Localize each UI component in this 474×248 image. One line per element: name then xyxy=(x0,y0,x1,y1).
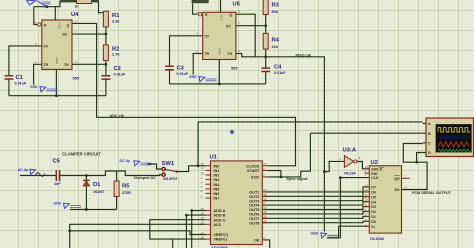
svg-text:TR: TR xyxy=(205,52,210,56)
wire data bus OUT4-D4 xyxy=(262,202,369,205)
svg-text:VCC: VCC xyxy=(220,15,224,22)
svg-text:10: 10 xyxy=(365,198,369,202)
svg-text:OUT1: OUT1 xyxy=(249,191,259,195)
wire data bus OUT7-D1 xyxy=(262,216,369,218)
svg-text:OUT8: OUT8 xyxy=(249,221,259,225)
svg-text:74LS04: 74LS04 xyxy=(344,171,356,175)
svg-text:OUT6: OUT6 xyxy=(249,213,259,217)
svg-text:C4: C4 xyxy=(274,65,282,71)
svg-text:15: 15 xyxy=(365,165,369,169)
wire U5 DC to R3R4 junction xyxy=(236,15,266,34)
terminal AC i/p xyxy=(18,168,46,176)
svg-text:80k: 80k xyxy=(272,9,279,14)
svg-text:D: D xyxy=(428,151,431,155)
wire data bus OUT6-D2 xyxy=(262,212,369,214)
resistor R4 xyxy=(263,33,279,49)
svg-text:Clamped AC: Clamped AC xyxy=(134,176,157,180)
svg-text:R4: R4 xyxy=(272,38,280,44)
terminal DC i/p xyxy=(120,159,152,166)
diode D1 xyxy=(83,180,104,194)
wire U1 EOC sync signal to scope B xyxy=(267,133,423,177)
wire U4 CV to C1 xyxy=(9,46,42,76)
svg-text:ALE: ALE xyxy=(213,223,221,227)
svg-text:TR: TR xyxy=(44,63,49,67)
svg-text:D3: D3 xyxy=(371,205,376,209)
wire C5 to D1 to switch (clamped AC) xyxy=(60,171,162,176)
svg-text:VREF(+): VREF(+) xyxy=(213,233,229,237)
junction U4 GND rail xyxy=(55,94,58,97)
svg-text:C3: C3 xyxy=(177,66,185,72)
svg-text:0.01uF: 0.01uF xyxy=(114,72,126,76)
svg-text:555: 555 xyxy=(73,76,80,81)
svg-text:B: B xyxy=(428,132,431,136)
svg-text:27: 27 xyxy=(201,167,205,171)
wire U1 START to EOC xyxy=(267,171,281,177)
svg-text:IN3: IN3 xyxy=(213,178,219,182)
svg-text:C2: C2 xyxy=(114,66,121,72)
thick rail segment left of 1k xyxy=(60,0,99,2)
wire U1 OE down xyxy=(262,240,269,248)
svg-text:C1: C1 xyxy=(16,75,24,81)
svg-text:R3: R3 xyxy=(272,3,280,9)
svg-text:SO: SO xyxy=(394,188,399,192)
wire switch pole to U1 IN0 xyxy=(177,166,206,172)
svg-text:U5: U5 xyxy=(233,2,241,8)
svg-text:GND: GND xyxy=(218,48,222,56)
wire ground to U2 SI xyxy=(327,226,369,238)
svg-text:22: 22 xyxy=(201,221,205,225)
pin ADD C xyxy=(206,219,211,221)
wire C3 bottom / gnd rail U5 xyxy=(170,70,266,84)
scope trace B (blue) xyxy=(438,136,470,139)
wire U5 VCC stub xyxy=(220,0,222,12)
wire U2 INH to ground xyxy=(340,178,369,238)
pin VREF(-) xyxy=(206,238,211,240)
pin U2 CLK xyxy=(364,177,369,179)
svg-text:14: 14 xyxy=(365,183,369,187)
svg-text:D5: D5 xyxy=(371,195,376,199)
svg-text:20: 20 xyxy=(263,215,267,219)
wire DC input to switch xyxy=(148,164,162,169)
pin OUT3 xyxy=(262,200,267,202)
svg-text:OE: OE xyxy=(254,239,260,243)
svg-text:0.01uF: 0.01uF xyxy=(274,71,286,75)
junction scope D tap xyxy=(415,161,418,164)
resistor R3 xyxy=(263,0,279,15)
wire U4 Q to ADC clk run xyxy=(72,23,296,165)
oscilloscope xyxy=(426,118,474,157)
pin U2 QH xyxy=(402,177,410,179)
svg-text:DC i/p: DC i/p xyxy=(120,159,131,163)
wire U1 VREF- left xyxy=(173,239,206,248)
wire U4 VCC stub xyxy=(54,7,56,20)
svg-text:SI: SI xyxy=(371,225,374,229)
svg-text:12: 12 xyxy=(365,188,369,192)
junction R4-C4 / PISO clk node xyxy=(264,55,267,58)
svg-text:18: 18 xyxy=(263,206,267,210)
wire data bus OUT3-D5 xyxy=(262,197,369,201)
svg-text:D1: D1 xyxy=(93,182,101,188)
svg-text:QH: QH xyxy=(394,177,400,181)
wire IN0 node to scope A xyxy=(198,122,423,166)
wire VCC rail U5 / reset riser xyxy=(193,3,198,14)
pin IN7 xyxy=(206,197,211,199)
wire branch to scope D xyxy=(417,153,423,163)
svg-text:22k: 22k xyxy=(272,44,279,49)
svg-text:D1: D1 xyxy=(371,215,376,219)
inverter U3:A 74LS04 xyxy=(340,148,361,176)
svg-text:23: 23 xyxy=(201,216,205,220)
wire U2 SO to scope C xyxy=(402,144,428,190)
ground terminal (clamper) xyxy=(54,202,82,209)
svg-text:IN6: IN6 xyxy=(213,192,219,196)
svg-text:IN4: IN4 xyxy=(213,183,220,187)
svg-text:17: 17 xyxy=(263,188,267,192)
svg-text:IN5: IN5 xyxy=(213,187,219,191)
pin START xyxy=(262,170,267,172)
pin EOC xyxy=(262,176,267,178)
pin CLOCK xyxy=(262,165,267,167)
svg-text:CV: CV xyxy=(205,34,210,38)
scope trace A (yellow) xyxy=(438,128,470,132)
svg-text:11: 11 xyxy=(365,193,368,197)
svg-text:ADD A: ADD A xyxy=(213,209,225,213)
wire data bus OUT5-D3 xyxy=(262,207,369,210)
svg-text:28: 28 xyxy=(201,171,205,175)
svg-text:U2: U2 xyxy=(371,160,378,166)
pin IN3 xyxy=(206,179,211,181)
svg-text:EOC: EOC xyxy=(251,176,259,180)
pin OUT5 xyxy=(262,209,267,211)
svg-text:OUT3: OUT3 xyxy=(249,199,259,203)
svg-text:GND: GND xyxy=(55,58,59,66)
svg-text:R5: R5 xyxy=(122,184,130,190)
pin U2 SI xyxy=(364,225,369,227)
wire clamper ground rail xyxy=(70,197,117,210)
wire U1 ADD A down xyxy=(192,211,206,248)
wire U4 reset pin riser xyxy=(34,7,38,25)
wire U1 VREF+ left xyxy=(70,231,206,235)
svg-text:14: 14 xyxy=(263,193,267,197)
scope trace D (green) xyxy=(438,149,470,151)
svg-text:SW1: SW1 xyxy=(162,161,175,167)
ground terminal (U4 trigger net) xyxy=(30,85,58,92)
wire U4 TH to R2 bottom / C2 xyxy=(72,61,106,76)
svg-text:26: 26 xyxy=(201,162,205,166)
junction R3-R4 / U5 DC xyxy=(264,24,267,27)
resistor (1k) top rail xyxy=(75,0,92,9)
resistor R2 xyxy=(103,45,120,61)
svg-text:OUT4: OUT4 xyxy=(249,204,260,208)
wire U5 TH to R4 bottom xyxy=(236,49,266,57)
shift register U2 74LS166 body xyxy=(364,160,410,241)
svg-text:C: C xyxy=(428,142,431,146)
wire U4 DC to R1R2 junction xyxy=(72,27,106,44)
wire U1 ADD C down xyxy=(150,220,206,239)
svg-text:12: 12 xyxy=(201,231,205,235)
pin OUT2 xyxy=(262,195,267,197)
svg-text:CLAMPER CIRCUIT: CLAMPER CIRCUIT xyxy=(62,152,101,157)
pin IN1 xyxy=(206,169,211,171)
pin U2 D5 xyxy=(364,196,369,198)
junction U2 CLK corner xyxy=(339,176,342,179)
wire scope pin stubs xyxy=(423,124,426,153)
pin ALE xyxy=(206,223,211,225)
pin U2 D2 xyxy=(364,211,369,213)
pin OUT6 xyxy=(262,213,267,215)
svg-text:Q: Q xyxy=(67,23,70,27)
pin OUT8 xyxy=(262,222,267,224)
ground terminal (U2 SI / INH net) xyxy=(311,231,339,238)
svg-text:IN1: IN1 xyxy=(213,169,219,173)
svg-text:IN0: IN0 xyxy=(213,164,219,168)
wire C4 column xyxy=(265,57,267,84)
pin IN5 xyxy=(206,188,211,190)
capacitor C3 xyxy=(165,66,189,76)
wire U5 TR to ground terminal xyxy=(193,53,203,74)
svg-text:CLOCK: CLOCK xyxy=(246,164,260,168)
wire U3A output to SH/LD xyxy=(357,162,369,169)
svg-text:ADD B: ADD B xyxy=(213,214,225,218)
junction R1-R2 / U4 DC xyxy=(105,33,108,36)
svg-text:24: 24 xyxy=(201,211,205,215)
pin IN0 xyxy=(206,165,211,167)
pin U2 D0 xyxy=(364,220,369,222)
wire U5 GND pin xyxy=(218,60,220,84)
pin U2 INH xyxy=(364,172,369,174)
thick rail segment U5 top xyxy=(192,0,209,3)
timer U4 555 body xyxy=(35,12,80,81)
svg-text:74LS166: 74LS166 xyxy=(370,237,385,241)
pin U2 D7 xyxy=(364,186,369,188)
ADC U1 ADC0808 body xyxy=(201,155,267,248)
svg-text:555: 555 xyxy=(231,66,238,71)
svg-text:1nF: 1nF xyxy=(54,182,61,186)
svg-text:GND: GND xyxy=(30,85,38,89)
pin ADD A xyxy=(206,210,211,212)
wire U4 TR to ground terminal xyxy=(34,64,42,85)
svg-text:470R: 470R xyxy=(122,191,131,195)
svg-text:GND: GND xyxy=(54,202,62,206)
junction D1 ground rail xyxy=(85,208,88,211)
ground terminal (U5 trigger net) xyxy=(189,75,217,82)
svg-text:SW-SPDT: SW-SPDT xyxy=(163,177,178,181)
junction IN0 / scope A tap xyxy=(197,164,200,167)
capacitor C5 xyxy=(53,159,62,187)
svg-text:OUT2: OUT2 xyxy=(249,195,259,199)
pin U2 D3 xyxy=(364,206,369,208)
svg-text:D2: D2 xyxy=(371,210,376,214)
svg-text:CLK: CLK xyxy=(371,176,379,180)
svg-text:DC: DC xyxy=(63,33,68,37)
svg-text:Sync signal: Sync signal xyxy=(287,177,308,181)
svg-text:OUT5: OUT5 xyxy=(249,208,259,212)
svg-text:ADD C: ADD C xyxy=(213,218,225,222)
scope trace C (red) xyxy=(438,142,469,147)
svg-text:U4: U4 xyxy=(71,12,79,18)
junction ALE-VREF rail xyxy=(68,229,71,232)
svg-text:CV: CV xyxy=(44,45,49,49)
pin IN2 xyxy=(206,174,211,176)
svg-text:1N4007: 1N4007 xyxy=(93,190,104,194)
svg-text:D6: D6 xyxy=(371,191,376,195)
svg-text:PISO clk: PISO clk xyxy=(296,54,312,58)
switch SW1 xyxy=(162,161,179,181)
capacitor C4 xyxy=(261,65,286,75)
svg-text:D0: D0 xyxy=(371,220,376,224)
wire PISO clk vertical run xyxy=(266,57,325,232)
pin U2 D4 xyxy=(364,201,369,203)
pin U2 D1 xyxy=(364,215,369,217)
svg-text:15: 15 xyxy=(263,197,267,201)
wire data bus OUT8-D0 xyxy=(262,221,369,222)
svg-text:TH: TH xyxy=(228,52,233,56)
wire U5 CV to C3 xyxy=(170,36,203,66)
resistor R5 xyxy=(114,181,131,197)
svg-text:AC i/p: AC i/p xyxy=(18,168,29,172)
junction START-EOC xyxy=(280,176,283,179)
pin U2 D6 xyxy=(364,191,369,193)
svg-text:D4: D4 xyxy=(371,200,376,204)
wire U1 ADD B down xyxy=(186,215,205,248)
wire U1 ALE down-left xyxy=(70,224,206,248)
svg-text:U3:A: U3:A xyxy=(343,148,357,154)
svg-text:10: 10 xyxy=(263,162,267,166)
svg-text:D7: D7 xyxy=(371,186,376,190)
pin U2 SH/LD xyxy=(364,168,369,170)
junction C5-D1-R5 clamp node xyxy=(85,174,88,177)
svg-text:TH: TH xyxy=(64,63,69,67)
svg-text:VCC: VCC xyxy=(57,23,61,30)
pin OUT4 xyxy=(262,204,267,206)
capacitor C1 xyxy=(5,75,27,85)
pin IN4 xyxy=(206,183,211,185)
wire data bus OUT1-D7 xyxy=(262,187,369,192)
svg-text:GND: GND xyxy=(311,231,319,235)
wire U3A input from CLK net xyxy=(324,161,344,171)
svg-text:INH: INH xyxy=(371,172,378,176)
svg-text:IN2: IN2 xyxy=(213,174,219,178)
svg-text:0.01uF: 0.01uF xyxy=(177,72,189,76)
node marker (origin diamond) xyxy=(230,130,234,134)
resistor R1 xyxy=(103,11,120,27)
svg-text:2.7k: 2.7k xyxy=(112,52,120,57)
wire AC input to C5 xyxy=(20,175,56,177)
svg-text:SH/LD: SH/LD xyxy=(371,167,382,171)
wire U4 GND pin xyxy=(55,69,57,95)
pin OE xyxy=(262,239,267,241)
wire R5 top stub xyxy=(116,171,118,181)
svg-text:A: A xyxy=(428,122,431,126)
junction ADD B corner xyxy=(185,214,188,217)
svg-text:13: 13 xyxy=(404,186,408,190)
pin OUT7 xyxy=(262,217,267,219)
pin ADD B xyxy=(206,214,211,216)
junction R2-C2 / U4 TH xyxy=(105,63,108,66)
pin IN6 xyxy=(206,192,211,194)
wire data bus OUT2-D6 xyxy=(262,192,369,196)
svg-text:Q: Q xyxy=(230,13,233,17)
wire U5 Q down xyxy=(236,14,255,57)
svg-text:ADC clk: ADC clk xyxy=(110,114,125,118)
wire D1 column xyxy=(85,176,87,210)
svg-text:IN7: IN7 xyxy=(213,197,219,201)
wire C1 bottom / gnd rail U4 xyxy=(9,79,106,96)
svg-text:DC: DC xyxy=(226,24,231,28)
svg-text:U1: U1 xyxy=(210,155,218,161)
junction U5 GND rail xyxy=(218,83,221,86)
svg-text:1k: 1k xyxy=(75,5,79,9)
svg-text:16: 16 xyxy=(201,235,205,239)
wire VCC rail U4 top xyxy=(34,2,106,15)
capacitor C2 xyxy=(102,66,126,79)
junction VCC rail / U4 supply xyxy=(45,5,48,8)
junction ADD A corner xyxy=(190,209,193,212)
power terminal +5V top left xyxy=(27,0,51,7)
svg-text:25: 25 xyxy=(201,207,205,211)
svg-text:0.01uF: 0.01uF xyxy=(15,81,27,85)
junction PISO clk / U3A input xyxy=(323,170,326,173)
timer U5 555 body xyxy=(196,2,241,71)
svg-text:19: 19 xyxy=(263,210,267,214)
svg-text:START: START xyxy=(247,169,260,173)
pin OUT1 xyxy=(262,191,267,193)
svg-text:21: 21 xyxy=(263,219,267,223)
svg-text:OUT7: OUT7 xyxy=(249,217,259,221)
pin VREF(+) xyxy=(206,234,211,236)
svg-text:3.3k: 3.3k xyxy=(112,19,120,24)
svg-text:GND: GND xyxy=(189,75,197,79)
svg-text:VREF(-): VREF(-) xyxy=(213,238,228,242)
svg-text:PCM SERIAL OUTPUT: PCM SERIAL OUTPUT xyxy=(412,191,452,195)
svg-text:C5: C5 xyxy=(53,159,61,165)
